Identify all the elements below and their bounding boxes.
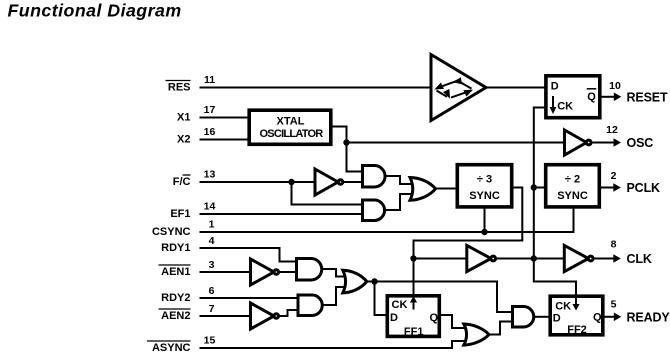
svg-text:OSCILLATOR: OSCILLATOR: [260, 128, 324, 140]
svg-text:1: 1: [209, 219, 215, 231]
svg-text:RDY1: RDY1: [161, 242, 190, 254]
svg-text:6: 6: [209, 285, 215, 297]
svg-text:AEN1: AEN1: [161, 266, 190, 278]
svg-text:16: 16: [204, 126, 216, 138]
svg-text:PCLK: PCLK: [627, 181, 661, 195]
svg-text:CK: CK: [557, 101, 573, 113]
svg-text:14: 14: [204, 201, 216, 213]
svg-text:7: 7: [209, 303, 215, 315]
svg-text:4: 4: [209, 235, 215, 247]
svg-text:12: 12: [606, 124, 618, 136]
svg-text:RES: RES: [168, 82, 191, 94]
svg-text:Q: Q: [430, 312, 439, 324]
svg-text:D: D: [390, 312, 398, 324]
svg-text:CSYNC: CSYNC: [152, 226, 191, 238]
svg-text:F/C: F/C: [173, 176, 191, 188]
svg-text:CLK: CLK: [627, 252, 652, 266]
svg-text:CK: CK: [555, 301, 571, 313]
svg-text:EF1: EF1: [170, 208, 190, 220]
svg-text:11: 11: [204, 74, 215, 86]
svg-text:5: 5: [611, 299, 617, 311]
svg-text:READY: READY: [627, 311, 670, 325]
svg-text:AEN2: AEN2: [161, 310, 190, 322]
svg-text:Q: Q: [593, 311, 602, 323]
svg-text:X1: X1: [177, 112, 190, 124]
svg-text:Q: Q: [587, 91, 596, 103]
svg-text:ASYNC: ASYNC: [152, 342, 191, 354]
svg-text:FF2: FF2: [567, 324, 587, 336]
svg-text:17: 17: [204, 104, 216, 116]
svg-text:D: D: [553, 313, 561, 325]
svg-text:3: 3: [209, 259, 215, 271]
svg-text:÷ 2: ÷ 2: [565, 174, 580, 186]
svg-text:2: 2: [611, 170, 617, 182]
svg-text:SYNC: SYNC: [469, 190, 500, 202]
svg-text:10: 10: [609, 80, 621, 92]
svg-text:Functional Diagram: Functional Diagram: [8, 1, 182, 21]
svg-text:15: 15: [204, 335, 216, 347]
svg-text:X2: X2: [177, 134, 190, 146]
svg-text:XTAL: XTAL: [277, 116, 305, 128]
svg-text:FF1: FF1: [404, 326, 424, 338]
svg-text:SYNC: SYNC: [557, 190, 588, 202]
svg-text:OSC: OSC: [627, 136, 654, 150]
svg-text:13: 13: [204, 169, 216, 181]
svg-text:RESET: RESET: [627, 91, 668, 105]
svg-text:RDY2: RDY2: [161, 292, 190, 304]
svg-text:CK: CK: [392, 299, 408, 311]
svg-text:8: 8: [611, 239, 617, 251]
svg-text:÷ 3: ÷ 3: [477, 174, 492, 186]
svg-text:D: D: [551, 81, 559, 93]
